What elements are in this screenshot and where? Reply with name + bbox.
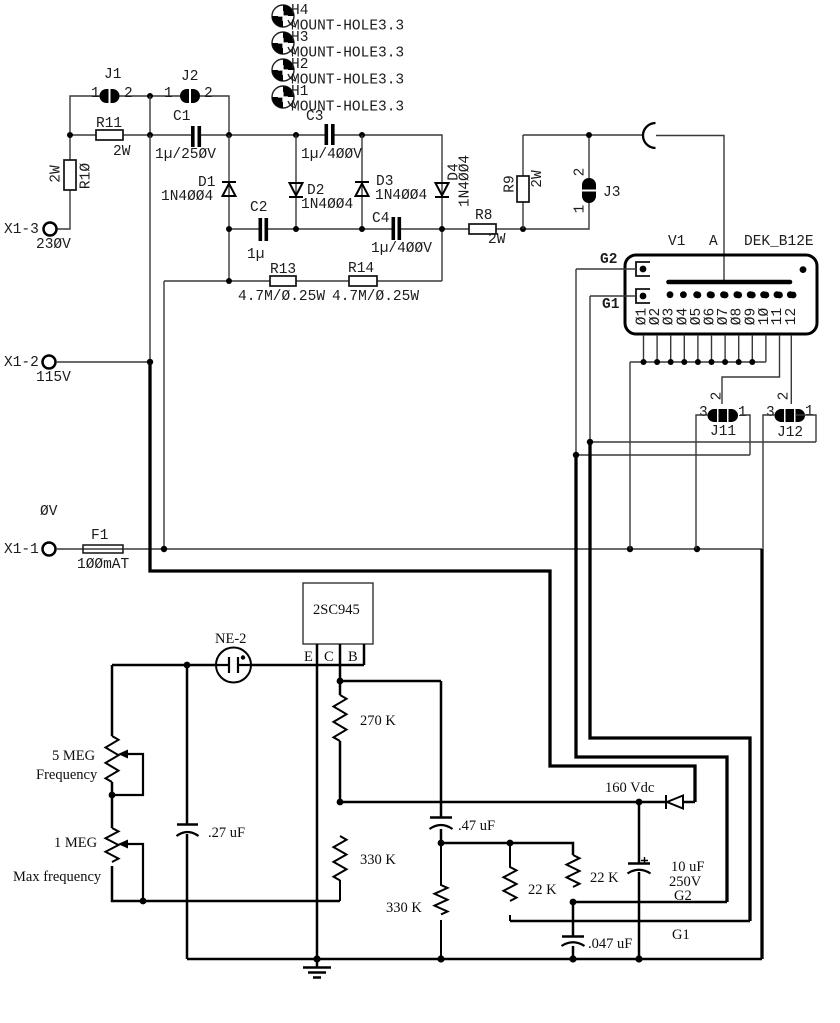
node main rail junctions: [67, 132, 73, 138]
capacitor .047 uF: [562, 902, 633, 959]
wire left rail: [112, 665, 340, 901]
jumper J12: [766, 392, 814, 441]
svg-text:330 K: 330 K: [386, 900, 422, 916]
node 160V rail left junction: [337, 799, 344, 806]
svg-text:G1: G1: [602, 297, 620, 313]
svg-text:C4: C4: [372, 211, 389, 227]
wire pin bus: [630, 362, 766, 549]
svg-text:1: 1: [164, 86, 173, 102]
node .47uF bottom junction: [438, 840, 445, 847]
svg-text:B: B: [348, 649, 358, 665]
wire R13 rail: [164, 280, 442, 282]
svg-text:3: 3: [766, 405, 775, 421]
wire NE-2 row: [112, 664, 364, 667]
wire thick 0V right leg: [760, 549, 763, 959]
node ground rail junctions: [313, 955, 320, 962]
jumper J2: [164, 69, 213, 103]
wire G1 pin to column: [590, 296, 636, 442]
svg-text:H2: H2: [291, 57, 308, 73]
svg-text:G2: G2: [674, 888, 692, 904]
wire divider row: [441, 843, 573, 855]
svg-text:C3: C3: [306, 109, 323, 125]
resistor R10: [49, 135, 95, 229]
jumper J11: [699, 392, 747, 440]
svg-text:1 MEG: 1 MEG: [54, 835, 98, 851]
wire J12 pad3 to fuse rail: [763, 415, 775, 549]
svg-text:1µ/25ØV: 1µ/25ØV: [155, 147, 216, 163]
svg-text:2SC945: 2SC945: [313, 602, 360, 618]
wire X1-2 lead: [56, 135, 150, 362]
resistor 22 K second: [567, 855, 620, 887]
wire J11 pad1 loop: [576, 415, 750, 455]
svg-text:Frequency: Frequency: [36, 767, 98, 783]
svg-text:C2: C2: [250, 200, 267, 216]
svg-text:2: 2: [573, 168, 589, 177]
anode bar: [669, 280, 791, 285]
svg-text:1µ/4ØØV: 1µ/4ØØV: [371, 241, 432, 257]
svg-text:X1-1: X1-1: [4, 542, 39, 558]
resistor 330 K first: [334, 836, 397, 901]
wire pin 12 to J12: [790, 335, 792, 404]
svg-text:E: E: [304, 649, 313, 665]
node NE-2 row junction: [184, 662, 191, 669]
wire top jumper rail: [70, 96, 229, 135]
node pot2 bottom junction: [140, 898, 147, 905]
svg-text:1µ/4ØØV: 1µ/4ØØV: [301, 147, 362, 163]
wire 160V rail: [340, 801, 695, 804]
svg-text:2W: 2W: [488, 232, 506, 248]
wire R13 rail to fuse rail: [163, 281, 165, 549]
svg-text:3: 3: [699, 405, 708, 421]
svg-text:2: 2: [710, 392, 726, 401]
svg-text:Max frequency: Max frequency: [13, 869, 102, 885]
svg-text:1N4ØØ4: 1N4ØØ4: [301, 197, 353, 213]
wire C2-C4 rail: [229, 135, 589, 229]
svg-text:F1: F1: [91, 528, 108, 544]
potentiometer 5 MEG: [36, 736, 143, 795]
resistor 22 K first: [504, 843, 558, 921]
svg-text:.47 uF: .47 uF: [458, 818, 495, 834]
svg-text:1ØØmAT: 1ØØmAT: [77, 557, 130, 573]
wire thick G2 route: [576, 455, 727, 902]
svg-text:1: 1: [91, 86, 100, 102]
svg-text:C1: C1: [173, 109, 190, 125]
diode 160V rectifier: [666, 795, 683, 809]
svg-text:1µ: 1µ: [247, 247, 264, 263]
svg-text:2W: 2W: [113, 144, 131, 160]
svg-text:NE-2: NE-2: [215, 631, 246, 647]
svg-text:1N4ØØ4: 1N4ØØ4: [458, 155, 474, 207]
node bus junctions: [641, 359, 756, 365]
node G1 column junction: [587, 439, 593, 445]
svg-text:5 MEG: 5 MEG: [52, 748, 96, 764]
diode D4: [435, 155, 474, 207]
fuse F1: [56, 528, 130, 573]
wire C1 rail: [70, 135, 442, 281]
jumper J3: [573, 168, 621, 214]
svg-text:12: 12: [784, 308, 800, 325]
wire collector leg: [339, 644, 342, 802]
wire R9 top rail: [523, 134, 642, 136]
pin number labels 01-12: [635, 308, 800, 326]
svg-text:J11: J11: [710, 424, 736, 440]
neon lamp NE-2: [215, 631, 251, 683]
wire thick 115V heater feed: [150, 362, 695, 802]
ground: [303, 959, 331, 978]
svg-text:J12: J12: [777, 425, 803, 441]
wire G1 line: [510, 920, 750, 923]
svg-text:22 K: 22 K: [590, 870, 619, 886]
svg-text:2: 2: [204, 86, 213, 102]
node 22K top junction: [507, 840, 514, 847]
wire thick G1 route: [590, 442, 750, 921]
svg-text:2: 2: [124, 86, 133, 102]
svg-text:1: 1: [738, 405, 747, 421]
node G2 line junction: [570, 899, 577, 906]
svg-text:C: C: [324, 649, 334, 665]
capacitor 10 uF 250V: [628, 802, 705, 959]
mount-hole H3: [272, 30, 404, 62]
resistor R9: [503, 135, 547, 229]
resistor R8: [469, 208, 506, 248]
svg-text:A: A: [709, 234, 718, 250]
capacitor C2: [247, 200, 268, 263]
wire G2 pin to column: [576, 269, 636, 455]
wire fuse rail: [123, 548, 762, 550]
svg-text:J2: J2: [181, 69, 198, 85]
mount-hole H4: [272, 3, 404, 35]
capacitor .47 uF: [430, 818, 496, 844]
node X1-2 junction: [147, 359, 153, 365]
capacitor C1: [155, 109, 216, 163]
svg-text:R14: R14: [348, 261, 374, 277]
diode D3: [355, 135, 427, 229]
mount-hole H1: [272, 84, 404, 116]
node 160V filter junction: [636, 799, 643, 806]
socket contact dots: [667, 266, 807, 298]
diode D2: [289, 135, 353, 229]
wire collector node to coupling: [340, 681, 441, 817]
tube socket V1 DEK_B12E: [625, 234, 817, 334]
antenna connector: [643, 123, 656, 148]
svg-text:1N4ØØ4: 1N4ØØ4: [375, 188, 427, 204]
wire G2 line: [573, 901, 727, 904]
node J3 top junction: [586, 132, 592, 138]
node pot1 wiper junction: [109, 792, 116, 799]
svg-text:1N4ØØ4: 1N4ØØ4: [161, 189, 213, 205]
svg-text:R13: R13: [270, 262, 296, 278]
svg-text:270 K: 270 K: [360, 713, 396, 729]
svg-text:G2: G2: [600, 252, 617, 268]
node fuse rail junctions: [161, 546, 167, 552]
wire J11 pad3 to fuse rail: [696, 415, 708, 549]
terminal X1-3: [4, 222, 71, 253]
svg-text:.047 uF: .047 uF: [588, 936, 632, 952]
svg-text:10 uF: 10 uF: [671, 859, 704, 875]
wire emitter leg: [316, 644, 319, 959]
resistor 330 K second: [386, 843, 448, 959]
svg-text:4.7M/Ø.25W: 4.7M/Ø.25W: [332, 289, 419, 305]
svg-text:DEK_B12E: DEK_B12E: [744, 234, 814, 250]
svg-text:R11: R11: [96, 116, 122, 132]
svg-text:115V: 115V: [36, 370, 71, 386]
pin G2 square: [600, 252, 650, 276]
svg-text:X1-3: X1-3: [4, 222, 39, 238]
svg-text:H4: H4: [291, 3, 308, 19]
resistor R14: [332, 261, 419, 305]
diode D1: [161, 135, 236, 281]
capacitor C4: [371, 211, 432, 257]
svg-text:R9: R9: [503, 175, 519, 192]
wire J12 pad1 loop: [590, 415, 816, 442]
resistor R11: [96, 116, 131, 160]
svg-text:2: 2: [777, 392, 793, 401]
svg-text:ØV: ØV: [40, 504, 58, 520]
jumper J1: [91, 67, 133, 103]
svg-text:22 K: 22 K: [528, 882, 557, 898]
svg-text:2W: 2W: [530, 170, 546, 188]
terminal X1-1: [4, 504, 58, 558]
svg-text:.27 uF: .27 uF: [208, 825, 245, 841]
node D1 lower junction: [226, 278, 232, 284]
potentiometer 1 MEG: [13, 828, 143, 901]
wire base leg: [363, 644, 366, 665]
resistor 270 K: [334, 695, 397, 741]
wire anode feed: [656, 136, 724, 281]
svg-text:2W: 2W: [49, 165, 65, 183]
wire pin 11 to J11: [722, 335, 780, 404]
node C2-C4 rail junctions: [226, 226, 232, 232]
svg-text:1: 1: [573, 205, 589, 214]
wire ground rail: [187, 958, 762, 961]
mount-hole H2: [272, 57, 404, 89]
pin G1 square: [602, 289, 650, 313]
svg-text:23ØV: 23ØV: [36, 237, 71, 253]
svg-text:V1: V1: [668, 234, 685, 250]
svg-text:R8: R8: [475, 208, 492, 224]
svg-text:R1Ø: R1Ø: [79, 163, 95, 189]
svg-text:J1: J1: [104, 67, 121, 83]
svg-text:160 Vdc: 160 Vdc: [605, 780, 654, 796]
node G2 column junction: [573, 452, 579, 458]
node J1-J2 junction: [147, 93, 153, 99]
svg-text:X1-2: X1-2: [4, 355, 39, 371]
svg-text:1: 1: [805, 404, 814, 420]
svg-text:4.7M/Ø.25W: 4.7M/Ø.25W: [238, 289, 325, 305]
svg-text:H1: H1: [291, 84, 308, 100]
svg-text:330 K: 330 K: [360, 852, 396, 868]
svg-text:H3: H3: [291, 30, 308, 46]
node base-collector junction: [337, 678, 344, 685]
terminal X1-2: [4, 355, 71, 386]
svg-text:J3: J3: [603, 185, 620, 201]
resistor R13: [238, 262, 325, 305]
transistor Q1 2SC945: [303, 583, 373, 665]
wire socket pin stubs: [644, 335, 766, 362]
wire junction drop: [149, 96, 151, 135]
capacitor C3: [301, 109, 362, 163]
svg-text:G1: G1: [672, 927, 690, 943]
capacitor .27 uF: [177, 665, 246, 959]
